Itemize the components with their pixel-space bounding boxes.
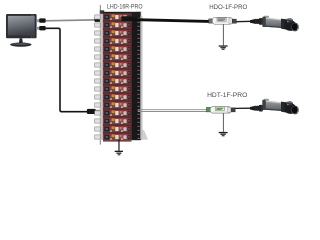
- camera 2: [262, 99, 299, 115]
- label HDT-1F-PRO: [207, 92, 247, 99]
- panel right rail: [132, 16, 141, 140]
- connector at panel row 13 left: [87, 109, 100, 114]
- module row 5: [103, 46, 132, 54]
- device HDT-1F-PRO: [206, 107, 235, 114]
- module row 13: [103, 110, 132, 118]
- svg-text:LHD-16R-PRO: LHD-16R-PRO: [107, 4, 143, 11]
- module row 10: [103, 86, 132, 94]
- panel top bracket: [136, 11, 143, 16]
- module row 4: [103, 38, 132, 46]
- svg-text:HDO-1F-PRO: HDO-1F-PRO: [209, 4, 247, 11]
- camera 1: [262, 16, 299, 32]
- module row 9: [103, 78, 132, 86]
- module row 8: [103, 70, 132, 78]
- ground panel: [115, 140, 123, 156]
- wire coax panel to HDO: [132, 20, 209, 22]
- connector camera 1 plug: [250, 18, 263, 25]
- panel left flange: [100, 5, 104, 145]
- wire HDT to camera 2: [235, 107, 251, 109]
- panel bottom bracket: [141, 128, 149, 141]
- wire twisted pair panel to HDT: [138, 110, 207, 112]
- wire monitor to panel top: [46, 19, 95, 22]
- svg-text:HDT-1F-PRO: HDT-1F-PRO: [207, 92, 247, 99]
- ground HDT: [219, 113, 228, 136]
- monitor: [6, 14, 37, 47]
- connector coax at panel row 1 right: [121, 16, 132, 21]
- module row 3: [103, 30, 132, 38]
- panel rail right edge strip: [140, 16, 142, 139]
- connector at panel row 1 left: [94, 17, 101, 22]
- module row 6: [103, 54, 132, 62]
- module row 14: [103, 118, 132, 126]
- module row 16: [103, 134, 132, 142]
- wire monitor lower to panel row 13: [46, 28, 88, 111]
- connector monitor upper plug: [37, 18, 46, 22]
- connector camera 2 plug: [250, 105, 263, 112]
- label HDO-1F-PRO: [209, 4, 247, 11]
- module row 11: [103, 94, 132, 102]
- panel label LHD-16R-PRO: [107, 4, 143, 11]
- module row 2: [103, 22, 132, 30]
- module row 7: [103, 62, 132, 70]
- connector monitor lower plug: [37, 26, 46, 30]
- panel chassis: [103, 12, 141, 140]
- ground HDO: [219, 24, 228, 50]
- module row 1: [103, 14, 132, 22]
- module row 15: [103, 126, 132, 134]
- panel input connector stubs: [95, 15, 101, 139]
- rail screw marks: [138, 18, 140, 139]
- device HDO-1F-PRO: [209, 17, 237, 24]
- wire HDO to camera 1: [236, 20, 251, 22]
- module row 12: [103, 102, 132, 110]
